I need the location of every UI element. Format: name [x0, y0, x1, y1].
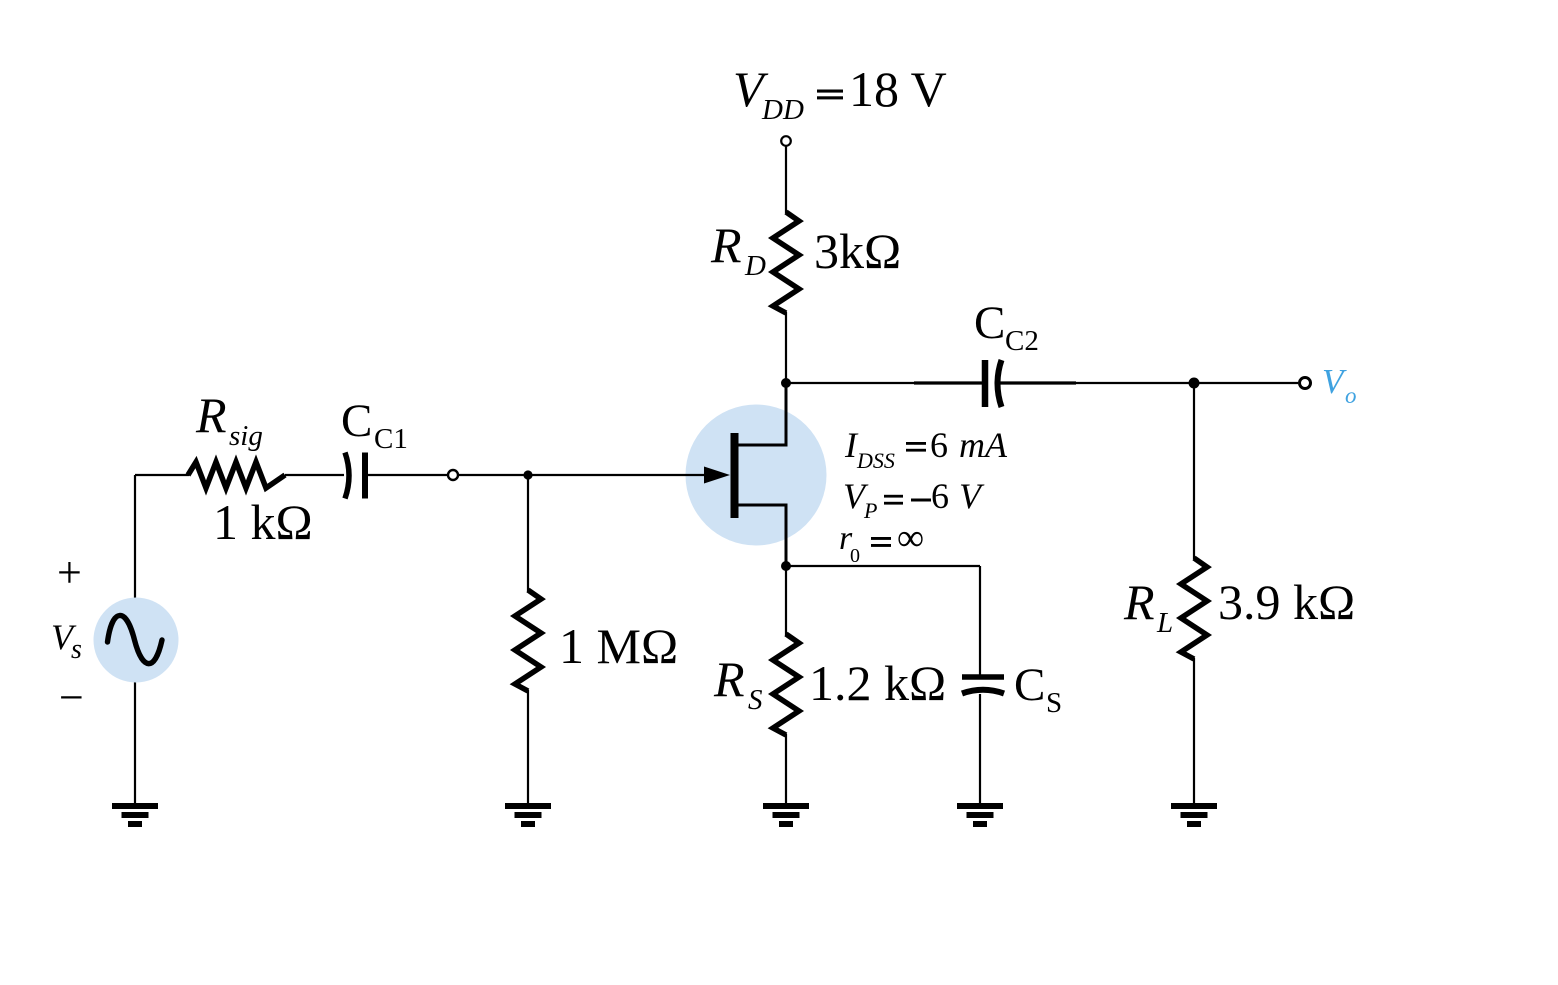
svg-text:s: s [71, 634, 82, 665]
wire Vs to Rsig [135, 474, 189, 476]
resistor RD [773, 212, 799, 313]
svg-text:1 kΩ: 1 kΩ [213, 494, 313, 550]
label Vs [51, 617, 82, 665]
transistor Q1 drain lead [738, 383, 786, 445]
svg-text:S: S [748, 684, 763, 716]
svg-text:3.9 kΩ: 3.9 kΩ [1218, 574, 1355, 630]
highlight circle source Vs [94, 598, 179, 683]
node Vo terminal [1300, 378, 1311, 389]
wire RD to drain node [785, 312, 787, 384]
wire RG to ground [527, 690, 529, 804]
node gate input terminal [448, 470, 458, 480]
svg-text:C: C [341, 395, 372, 447]
wire CC1 to gate terminal [368, 474, 447, 476]
label Vo [1322, 362, 1357, 408]
transistor Q1 JFET channel bar [731, 433, 739, 518]
wire Rsig to CC1 [285, 474, 344, 476]
svg-text:S: S [1046, 687, 1062, 719]
svg-text:mA: mA [959, 425, 1008, 465]
transistor Q1 gate arrow [704, 467, 730, 484]
node VDD terminal [781, 136, 791, 146]
ground (RG) [505, 803, 551, 827]
capacitor CC1 [345, 453, 365, 499]
label r0 = infinity [839, 517, 924, 567]
label VDD = 18 V [733, 61, 947, 126]
wire output node to RL [1193, 383, 1195, 559]
wire terminal to gate node [459, 474, 528, 476]
svg-text:∞: ∞ [897, 517, 924, 559]
label RL [1123, 574, 1173, 639]
transistor Q1 source lead [738, 505, 786, 566]
label IDSS = 6 mA [844, 425, 1008, 473]
resistor RL [1181, 558, 1207, 659]
label RS [713, 651, 763, 716]
capacitor CS [962, 677, 1004, 694]
svg-text:1.2 kΩ: 1.2 kΩ [809, 655, 946, 711]
wire CS to ground [979, 694, 981, 804]
svg-text:+: + [57, 548, 82, 597]
capacitor CC2 [985, 360, 1002, 407]
svg-text:−: − [59, 673, 84, 722]
svg-text:C2: C2 [1005, 325, 1039, 357]
wire RL to ground [1193, 658, 1195, 804]
label VP = -6 V [843, 476, 985, 523]
resistor Rsig [188, 462, 285, 488]
node gate junction [523, 470, 532, 479]
wire gate node down to RG [527, 475, 529, 592]
svg-text:R: R [710, 217, 742, 273]
svg-text:C: C [1014, 659, 1045, 711]
source Vs sine symbol [108, 615, 163, 663]
node source junction [781, 561, 791, 571]
wire source node to CS branch [786, 565, 980, 567]
svg-text:6: 6 [930, 425, 948, 465]
resistor RG 1 MOhm [515, 590, 541, 691]
label CC2 [974, 297, 1039, 357]
svg-text:6: 6 [931, 476, 949, 516]
label RD [710, 217, 766, 282]
svg-text:R: R [195, 387, 227, 443]
svg-text:o: o [1345, 383, 1357, 408]
wire Vs source vertical [134, 475, 136, 804]
svg-text:3kΩ: 3kΩ [814, 223, 901, 279]
svg-text:R: R [1123, 574, 1155, 630]
wire drain node to CC2 [786, 382, 982, 384]
svg-text:sig: sig [229, 420, 263, 452]
svg-text:18 V: 18 V [849, 61, 947, 117]
svg-text:0: 0 [850, 545, 860, 567]
ground (RS) [763, 803, 809, 827]
wire VDD to RD [785, 146, 787, 213]
wire source node down to RS [785, 566, 787, 636]
svg-text:P: P [863, 498, 877, 523]
label CS [1014, 659, 1062, 719]
svg-text:R: R [713, 651, 745, 707]
svg-text:V: V [1322, 362, 1347, 401]
wire CS branch down [979, 566, 981, 675]
resistor RS [773, 634, 799, 735]
svg-text:DD: DD [761, 94, 804, 126]
wire RS to ground [785, 734, 787, 804]
node drain junction [781, 378, 791, 388]
svg-text:D: D [744, 250, 766, 282]
ground (RL) [1171, 803, 1217, 827]
ground (Vs) [112, 803, 158, 827]
wire CC2 to output node [1000, 382, 1298, 384]
svg-text:C: C [974, 297, 1005, 349]
label CC1 [341, 395, 408, 455]
svg-text:1 MΩ: 1 MΩ [559, 618, 678, 674]
svg-text:L: L [1156, 607, 1173, 639]
svg-text:DSS: DSS [856, 448, 895, 473]
ground (CS) [957, 803, 1003, 827]
label Rsig [195, 387, 263, 452]
wire gate node to JFET gate [528, 474, 706, 476]
node output junction [1189, 378, 1200, 389]
highlight circle around JFET Q1 [686, 405, 827, 546]
svg-text:C1: C1 [374, 423, 408, 455]
